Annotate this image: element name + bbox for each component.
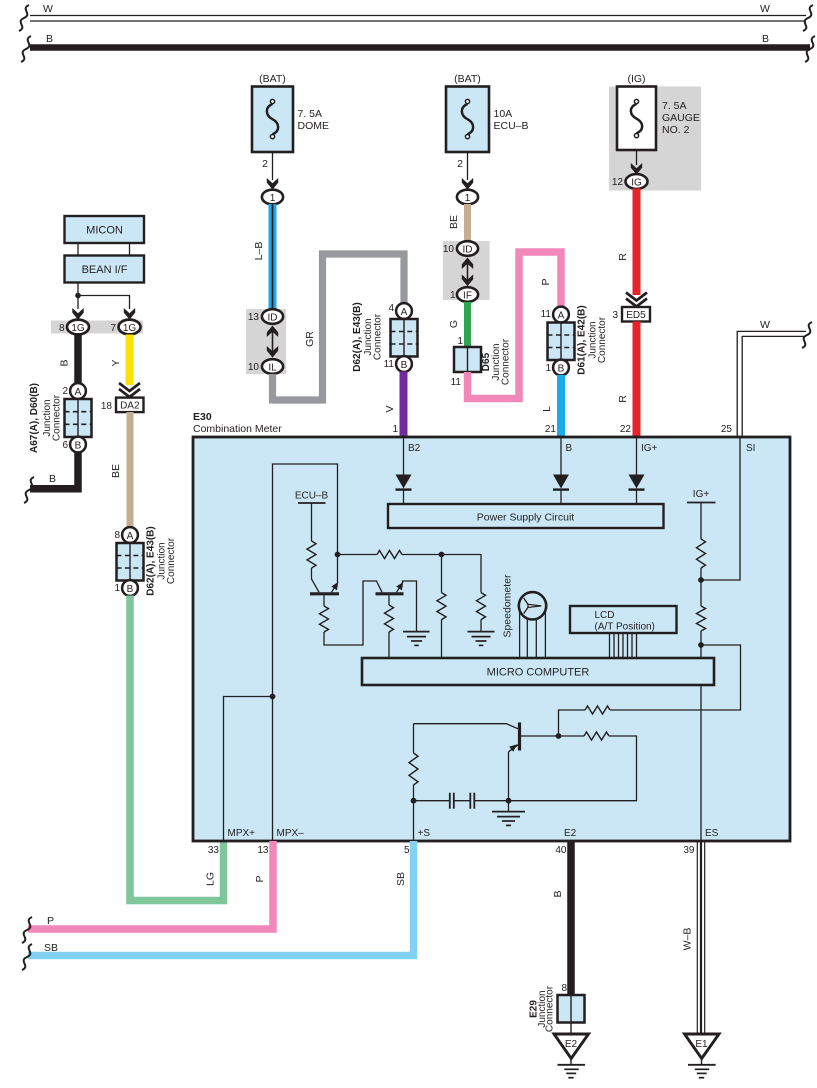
svg-text:40: 40 (555, 845, 567, 856)
svg-text:L: L (541, 406, 553, 412)
svg-text:5: 5 (404, 845, 410, 856)
gray panel ID/IL (246, 309, 286, 374)
svg-text:3: 3 (612, 310, 618, 321)
svg-text:10: 10 (248, 362, 260, 373)
svg-text:Connector: Connector (597, 316, 608, 363)
svg-text:B: B (558, 363, 565, 374)
continuation squiggle W pin25 (802, 322, 812, 348)
svg-text:L–B: L–B (253, 242, 265, 261)
svg-text:2: 2 (457, 158, 463, 170)
label E30 Combination Meter (193, 411, 282, 435)
svg-text:B: B (46, 33, 53, 45)
node IG+ lower junction (698, 642, 704, 648)
svg-text:DA2: DA2 (120, 401, 140, 412)
connector oval 1 (262, 190, 283, 205)
svg-text:IF: IF (463, 290, 472, 301)
transistor Q1 (310, 555, 339, 594)
wire R8 to ground return (509, 736, 637, 801)
svg-text:E2: E2 (565, 1039, 578, 1050)
ground E2 (554, 1034, 589, 1078)
chevron arrows into DA2 (119, 383, 140, 397)
connector circle 11 A (D61) (553, 307, 569, 323)
double arrow between ID and IF (462, 258, 473, 287)
ground E1 (685, 1034, 720, 1078)
fuse 7.5A GAUGE NO.2 (617, 87, 656, 151)
junction connector D62(A), E43(B) middle (391, 319, 418, 357)
svg-text:1: 1 (465, 193, 471, 204)
resistor R7 (feedback upper) (585, 706, 610, 714)
diode D2 (553, 475, 569, 505)
double arrow between ID and IL (267, 326, 278, 358)
arrow into 8 1G (72, 308, 83, 320)
block LCD (A/T Position) (570, 606, 677, 633)
svg-text:Speedometer: Speedometer (502, 574, 514, 638)
chevron arrows into ED5 (626, 293, 647, 307)
label D62(A), E43(B) Junction Connector (middle unit) (352, 302, 384, 371)
wire SI from pin 25 (701, 437, 740, 580)
ECU-B internal rail (295, 491, 329, 542)
node collector junction (556, 733, 562, 739)
wire B top rail (30, 44, 810, 51)
svg-text:13: 13 (248, 312, 260, 323)
wire LG (light green) to pin 33 (130, 596, 224, 901)
svg-text:11: 11 (541, 309, 552, 320)
connector circle 11 B (D62 middle) (396, 356, 412, 372)
continuation squiggle B bottom-left (24, 477, 34, 503)
svg-text:P: P (254, 875, 266, 882)
wire R (red) upper (633, 189, 641, 296)
block MICRO COMPUTER (362, 658, 714, 685)
svg-text:7. 5A: 7. 5A (298, 108, 323, 120)
svg-text:BE: BE (110, 464, 122, 478)
svg-text:1: 1 (114, 583, 120, 594)
svg-text:10: 10 (443, 244, 455, 255)
ground (Q2 emitter) (403, 632, 430, 646)
wire from fuse DOME pin 2 (272, 152, 274, 180)
svg-text:7: 7 (110, 323, 116, 334)
arrow into connector 1 (ECU-B) (462, 178, 473, 190)
wire R1 to transistor Q1 collector (312, 568, 320, 592)
svg-text:4: 4 (388, 303, 394, 314)
wire L (light blue) to pin 21 (557, 375, 565, 437)
ground (R10) (468, 632, 495, 646)
wire ES from micro computer to pin 39 (700, 685, 702, 841)
connector circle 4 A (D62 middle) (396, 303, 412, 319)
wire R (red) lower (633, 322, 641, 438)
junction dot (75, 293, 81, 299)
svg-text:A: A (558, 310, 565, 321)
resistor R2 (Q1 base) (320, 581, 383, 645)
svg-text:B: B (566, 443, 573, 454)
svg-text:A: A (401, 307, 408, 318)
svg-text:E1: E1 (695, 1039, 708, 1050)
svg-text:P: P (540, 278, 552, 285)
block BEAN I/F (65, 256, 145, 283)
wire from fuse ECU-B pin 2 (467, 152, 469, 180)
svg-text:6: 6 (62, 440, 68, 451)
svg-text:IG+: IG+ (693, 489, 710, 500)
svg-text:1: 1 (450, 290, 456, 301)
svg-text:1G: 1G (71, 323, 85, 334)
svg-text:MICRO COMPUTER: MICRO COMPUTER (487, 667, 590, 679)
svg-text:GAUGE: GAUGE (662, 112, 700, 124)
svg-text:A: A (75, 387, 82, 398)
wire P (pink) bottom (28, 841, 273, 929)
connector oval 13 ID (262, 309, 283, 324)
label D62(A), E43(B) Junction Connector (left unit) (146, 526, 178, 595)
svg-text:NO. 2: NO. 2 (662, 124, 690, 136)
svg-text:BEAN I/F: BEAN I/F (82, 264, 128, 276)
svg-text:R: R (617, 253, 629, 261)
wires speedometer to micro computer (520, 611, 546, 658)
ground (Q3) (492, 801, 525, 826)
connector circle 1 B (D61) (553, 360, 569, 376)
wire GR (gray) (273, 254, 405, 400)
svg-text:Combination Meter: Combination Meter (193, 423, 282, 435)
continuation squiggle P (22, 917, 32, 943)
svg-text:B2: B2 (408, 443, 421, 454)
continuation squiggle B left (21, 36, 31, 62)
svg-text:11: 11 (384, 359, 395, 370)
resistor R3 (Q2 base) (385, 596, 394, 659)
wire pin22 to diode (636, 437, 638, 475)
svg-text:(IG): (IG) (627, 73, 645, 85)
label D65 Junction Connector (481, 338, 512, 385)
connector oval 12 IG (626, 174, 648, 189)
svg-text:MICON: MICON (86, 225, 123, 237)
svg-text:13: 13 (257, 845, 269, 856)
label D61(A), E42(B) Junction Connector (577, 305, 609, 374)
wire node to feedback loop (610, 645, 741, 710)
svg-text:10A: 10A (494, 108, 513, 120)
wire L-B (blue with black stripe) (269, 204, 277, 309)
transistor Q2 (376, 581, 417, 632)
wire MPX+ internal (224, 697, 273, 842)
svg-text:Power Supply Circuit: Power Supply Circuit (477, 512, 575, 524)
svg-text:11: 11 (451, 377, 462, 388)
svg-text:MPX–: MPX– (277, 828, 305, 839)
svg-text:R: R (617, 395, 629, 403)
arrow into connector IG (631, 163, 642, 175)
connector box 18 DA2 (116, 398, 144, 413)
transistor Q3 (414, 722, 559, 800)
svg-text:B: B (49, 473, 56, 485)
junction connector D61(A), E42(B) (548, 323, 575, 361)
wire G (green) (464, 302, 471, 347)
svg-text:2: 2 (262, 158, 268, 170)
junction connector D62(A), E43(B) left (117, 543, 144, 581)
resistor R10 (to ground) (442, 555, 486, 632)
capacitor C1 (414, 793, 454, 809)
svg-text:ED5: ED5 (626, 310, 646, 321)
svg-text:2: 2 (62, 386, 68, 397)
wire from fuse GAUGE (636, 150, 638, 165)
svg-text:DOME: DOME (298, 120, 330, 132)
wire B (black) to left edge (30, 452, 78, 489)
speedometer gauge (519, 592, 546, 619)
svg-text:(A/T Position): (A/T Position) (595, 622, 655, 633)
svg-text:22: 22 (620, 424, 632, 435)
connector circle 2 A (70, 383, 86, 399)
resistor R9 (to micro computer) (437, 555, 446, 659)
connector oval 10 IL (262, 359, 283, 374)
node R4 right junction (439, 552, 445, 558)
svg-text:D62(A), E43(B): D62(A), E43(B) (352, 302, 363, 371)
svg-text:18: 18 (101, 401, 113, 412)
svg-text:SI: SI (746, 443, 755, 454)
continuation squiggle W left (19, 5, 29, 31)
svg-text:ID: ID (268, 312, 278, 323)
wire B (black) pin 40 to E29 (567, 841, 575, 995)
connector oval 1 IF (457, 287, 478, 302)
svg-text:LCD: LCD (595, 610, 615, 621)
svg-text:B: B (552, 890, 564, 897)
svg-text:W–B: W–B (682, 928, 694, 951)
svg-text:1: 1 (545, 363, 551, 374)
svg-text:B: B (762, 33, 769, 45)
gray panel ID/IF (443, 241, 490, 300)
connector oval 10 ID (457, 241, 478, 256)
svg-text:25: 25 (721, 424, 733, 435)
block E30 Combination Meter (193, 437, 790, 841)
wire pin1 to diode (403, 437, 405, 475)
svg-text:E2: E2 (564, 828, 577, 839)
continuation squiggle W right (803, 5, 813, 31)
connector circle 1 B (D62 left) (122, 580, 138, 596)
wire Y (yellow) (126, 335, 134, 386)
svg-text:Connector: Connector (166, 537, 177, 584)
svg-text:W: W (43, 3, 53, 15)
svg-text:ES: ES (705, 828, 719, 839)
IG+ internal rail (687, 489, 716, 539)
svg-text:BE: BE (448, 215, 460, 229)
svg-text:B: B (401, 360, 408, 371)
wire E29 to ground E2 (570, 1023, 572, 1035)
diode D1 (396, 475, 412, 505)
label E29 Junction Connector (529, 985, 556, 1032)
wire SB (light blue) bottom (28, 841, 414, 956)
svg-text:G: G (448, 320, 460, 328)
svg-text:MPX+: MPX+ (228, 828, 256, 839)
wire W to pin 25 (737, 331, 806, 437)
connector circle 8 A (D62 left) (122, 527, 138, 543)
svg-text:A67(A), D60(B): A67(A), D60(B) (29, 383, 40, 453)
resistor R11 (+S) (409, 724, 418, 841)
resistor R5 (IG+ upper) (697, 539, 706, 568)
svg-text:W: W (760, 3, 770, 15)
svg-text:Connector: Connector (545, 985, 556, 1032)
node +S capacitor junction (411, 798, 417, 804)
svg-text:Connector: Connector (52, 394, 63, 441)
connector oval 7 1G (119, 320, 141, 335)
svg-text:8: 8 (114, 530, 120, 541)
block Power Supply Circuit (388, 504, 664, 528)
wire BE (tan) to D62 (127, 412, 134, 528)
svg-text:SB: SB (395, 872, 407, 886)
connector oval 1 (ECU-B) (457, 190, 478, 205)
svg-text:ID: ID (463, 244, 473, 255)
arrow into connector 1 (267, 178, 278, 190)
svg-text:Connector: Connector (501, 338, 512, 385)
wire W-B pin 39 to ground E1 (697, 841, 704, 1034)
wire to transistor collector node (559, 710, 586, 736)
connector circle 6 B (70, 437, 86, 453)
svg-text:8: 8 (59, 323, 65, 334)
svg-text:W: W (760, 319, 770, 331)
wire BE (tan) (464, 204, 471, 241)
gray band behind 1G connectors (51, 321, 143, 334)
continuation squiggle SB (22, 944, 32, 970)
fuse 10A ECU-B (446, 87, 489, 153)
svg-text:GR: GR (304, 331, 316, 347)
svg-text:B: B (127, 584, 134, 595)
svg-text:12: 12 (612, 177, 624, 188)
svg-text:SB: SB (44, 942, 58, 954)
junction connector A67(A), D60(B) (65, 399, 92, 437)
svg-text:8: 8 (561, 983, 567, 994)
wire BEAN I/F to 1G connectors (78, 283, 130, 310)
connector box ED5 (622, 307, 650, 322)
wire resistor to node (700, 568, 702, 606)
wire pin21 to diode (560, 437, 562, 475)
svg-text:Connector: Connector (373, 313, 384, 360)
svg-text:21: 21 (545, 424, 557, 435)
wire P (pink) from D65 to D61 (468, 252, 562, 399)
svg-text:A: A (127, 531, 134, 542)
junction connector D65 (454, 347, 481, 372)
svg-text:D62(A), E43(B): D62(A), E43(B) (146, 526, 157, 595)
block MICON (65, 216, 145, 243)
resistor R6 (IG+ lower) (697, 606, 706, 631)
svg-text:(BAT): (BAT) (454, 73, 481, 85)
svg-text:Y: Y (110, 359, 122, 366)
wire V (violet) to pin 1 (400, 372, 408, 438)
svg-text:39: 39 (683, 845, 695, 856)
wire W top rail (30, 16, 806, 22)
wires MICON to BEAN I/F (78, 243, 130, 256)
capacitor C2 (454, 793, 509, 809)
wire B (black) to A67 (74, 335, 82, 384)
svg-text:LG: LG (205, 872, 217, 886)
wire resistor to micro computer (700, 631, 702, 658)
arrow into 7 1G (124, 308, 135, 320)
bus LCD to micro computer (610, 633, 637, 658)
svg-text:IG: IG (631, 177, 642, 188)
svg-text:1G: 1G (123, 323, 137, 334)
node Q3 emitter ground junction (506, 798, 512, 804)
svg-text:E30: E30 (193, 411, 212, 423)
svg-text:P: P (47, 915, 54, 927)
node SI junction (698, 577, 704, 583)
svg-text:1: 1 (270, 193, 276, 204)
resistor R1 (ECU-B) (307, 541, 316, 568)
node MPX junction (270, 694, 276, 700)
wire MPX- internal (272, 697, 274, 842)
gray panel GAUGE fuse (609, 87, 701, 191)
svg-text:1: 1 (457, 336, 463, 347)
svg-text:33: 33 (208, 845, 220, 856)
svg-text:ECU–B: ECU–B (494, 120, 529, 132)
wire node to MPX line (273, 464, 338, 697)
svg-text:IG+: IG+ (641, 443, 658, 454)
continuation squiggle B right (805, 36, 815, 62)
resistor R8 (feedback lower) (584, 732, 609, 740)
svg-text:ECU–B: ECU–B (295, 491, 329, 502)
svg-text:IL: IL (268, 362, 277, 373)
diode D3 (629, 475, 645, 505)
svg-text:D61(A), E42(B): D61(A), E42(B) (577, 305, 588, 374)
svg-text:V: V (384, 405, 396, 412)
resistor R4 (horizontal) (340, 551, 442, 559)
svg-text:B: B (75, 440, 82, 451)
svg-text:7. 5A: 7. 5A (662, 100, 687, 112)
svg-text:+S: +S (418, 828, 431, 839)
label A67(A), D60(B) Junction Connector (29, 383, 63, 453)
wire node to resistor R8 (559, 735, 585, 737)
junction connector E29 (558, 995, 585, 1023)
node Q1 emitter junction (335, 552, 341, 558)
connector oval 8 1G (67, 320, 89, 335)
svg-text:B: B (59, 359, 71, 366)
svg-text:1: 1 (392, 424, 398, 435)
fuse 7.5A DOME (252, 87, 293, 153)
svg-text:(BAT): (BAT) (259, 73, 286, 85)
